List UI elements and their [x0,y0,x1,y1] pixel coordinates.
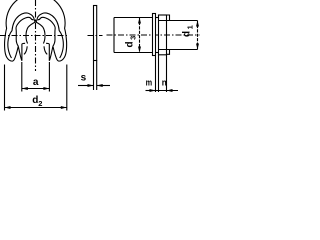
m/n dimension arrows [146,89,179,92]
retained washer on shaft [159,15,167,55]
d1 dimension line with arrows [196,21,199,50]
d3 dimension line with arrows [138,18,141,53]
a dimension line with arrows [22,87,50,90]
svg-text:m: m [146,77,153,88]
right waist lobe [44,46,47,54]
left kidney cutout [8,13,35,58]
svg-text:d2: d2 [32,95,42,108]
d2 dimension extension lines [4,65,6,111]
vertical centerline [35,0,37,71]
clip in groove (side view) [153,14,156,56]
plate [94,6,97,61]
horizontal centerline [107,34,200,36]
m/n extension lines [155,56,157,93]
bore with raised center dome [26,22,45,44]
s extension lines [93,61,95,91]
left waist lobe [24,46,27,54]
right kidney cutout [36,13,63,58]
shaft right section (d1) edges [159,20,198,22]
d2 dimension line with arrows [5,106,67,109]
e-clip outer outline with prongs and bottom mouth [5,0,67,61]
shaft left section (d3) [114,17,153,19]
svg-text:d3: d3 [125,36,138,48]
svg-text:n: n [162,77,167,88]
svg-text:a: a [33,77,39,88]
washer hub step (lower) [167,50,170,55]
a dimension extension lines [21,62,23,92]
svg-text:s: s [81,72,87,83]
groove floor segments [156,17,159,19]
s dimension arrows [78,84,110,87]
washer hub step (upper) [167,15,170,21]
centerline through plate [88,35,103,37]
horizontal centerline [0,35,67,37]
